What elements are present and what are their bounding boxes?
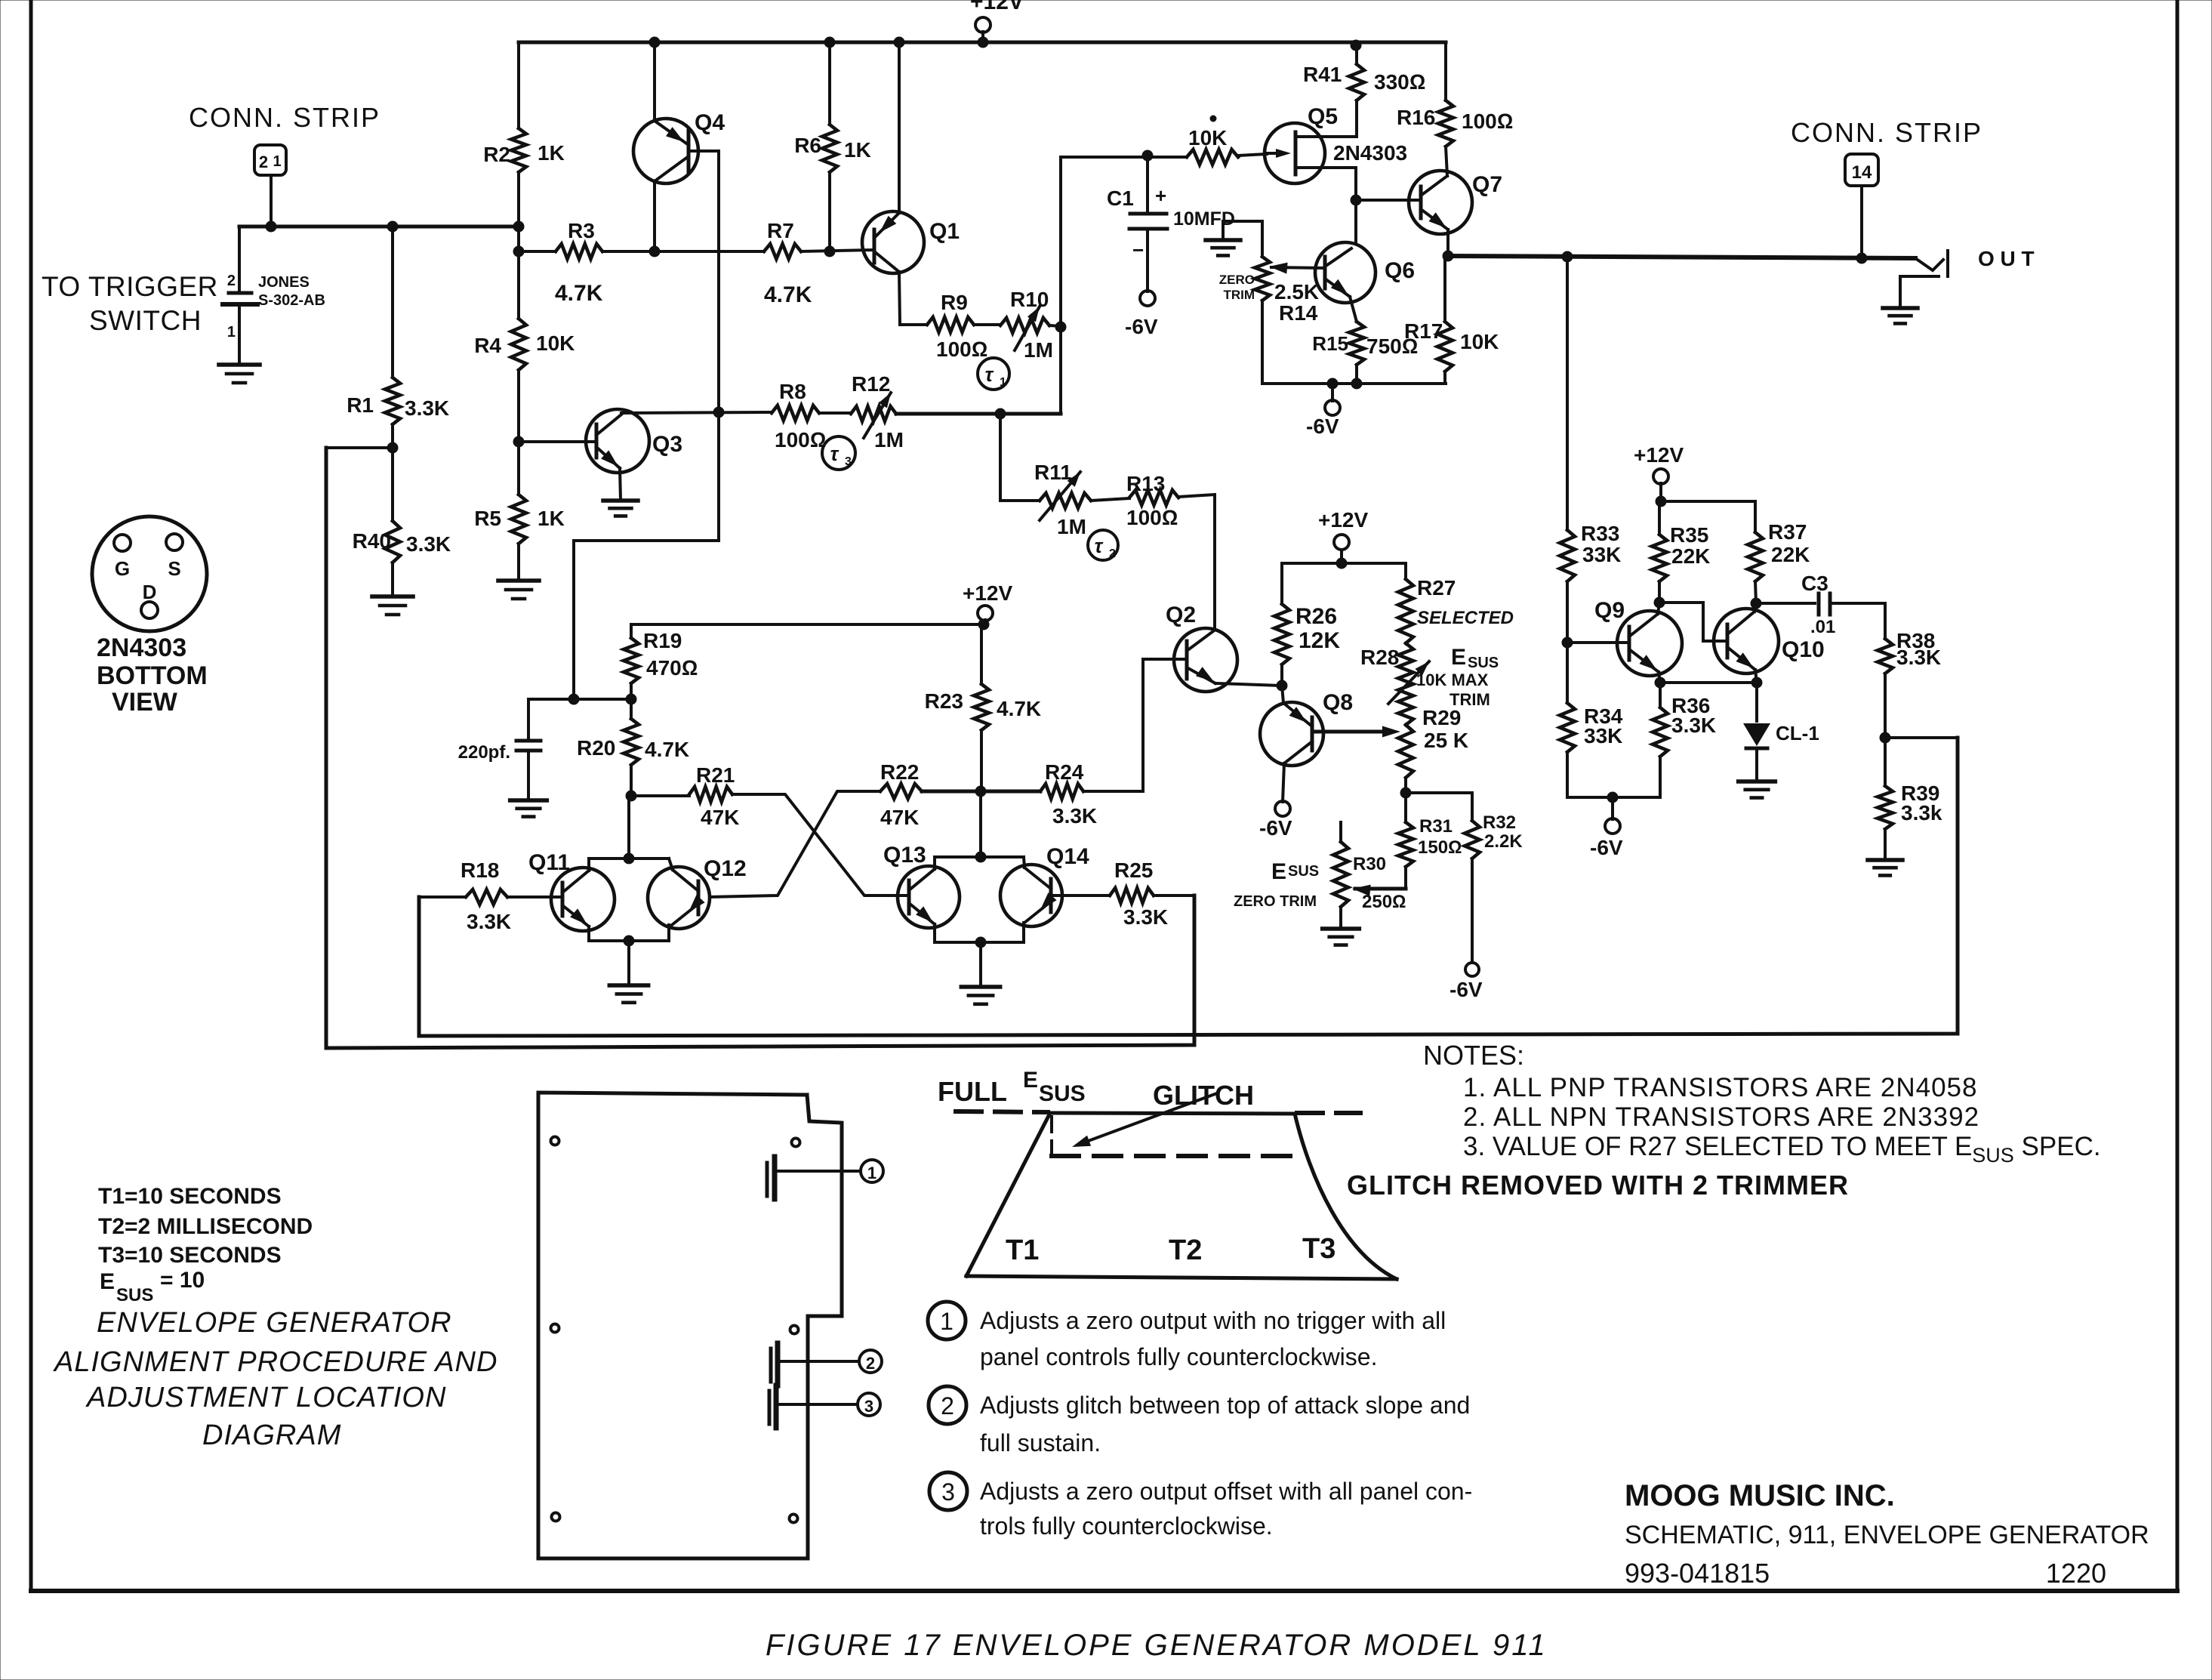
connector terminal 21 bbox=[254, 145, 286, 175]
svg-text:R13: R13 bbox=[1126, 472, 1165, 495]
resistor R26 bbox=[1280, 563, 1283, 604]
transistor Q13 bbox=[898, 866, 960, 928]
resistor R19 470 bbox=[630, 624, 633, 638]
svg-text:VIEW: VIEW bbox=[112, 688, 178, 717]
svg-text:2.5K: 2.5K bbox=[1274, 280, 1319, 304]
svg-text:E: E bbox=[1023, 1068, 1038, 1093]
svg-text:-6V: -6V bbox=[1306, 415, 1339, 438]
svg-text:10MFD: 10MFD bbox=[1173, 208, 1235, 230]
svg-text:G: G bbox=[115, 557, 130, 580]
ground below R30 bbox=[1323, 926, 1360, 931]
resistor R25 3.3K bbox=[1051, 894, 1110, 897]
adjustment note 3 bbox=[929, 1472, 967, 1510]
trimmer pot 1 on PCB bbox=[766, 1163, 769, 1196]
wire Q11/Q12 collector bar bbox=[589, 857, 669, 860]
transistor Q14 bbox=[1000, 865, 1062, 926]
node -6V tap bbox=[1327, 378, 1338, 389]
svg-text:1K: 1K bbox=[844, 138, 871, 162]
page border bottom bbox=[31, 1589, 2177, 1593]
svg-text:T1=10 SECONDS: T1=10 SECONDS bbox=[98, 1184, 282, 1209]
wire Q8 emitter to -6V bbox=[1283, 763, 1284, 802]
svg-text:Q9: Q9 bbox=[1594, 598, 1625, 623]
ground below 220pf bbox=[510, 798, 547, 803]
svg-text:R24: R24 bbox=[1045, 760, 1084, 784]
svg-text:−: − bbox=[1132, 239, 1144, 261]
svg-text:1M: 1M bbox=[874, 428, 904, 452]
transistor Q5 2N4303 FET bbox=[1265, 123, 1325, 183]
ground at R14 top bbox=[1206, 238, 1240, 242]
wire Q11 base bbox=[507, 895, 562, 899]
svg-text:Q10: Q10 bbox=[1782, 637, 1825, 662]
wire trigger bus bbox=[239, 225, 519, 229]
label T2 timing circle bbox=[1088, 530, 1118, 560]
svg-text:R17: R17 bbox=[1404, 319, 1443, 343]
svg-text:3.3K: 3.3K bbox=[467, 910, 511, 933]
resistor R6 bbox=[824, 37, 835, 48]
node R19/R20/220pf junction bbox=[630, 683, 633, 719]
svg-text:R32: R32 bbox=[1483, 812, 1516, 833]
wire R22 to Q12 base (cross) bbox=[710, 791, 880, 897]
node R38/R39 junction bbox=[1884, 674, 1887, 738]
svg-text:R40: R40 bbox=[353, 529, 391, 553]
svg-text:ALIGNMENT PROCEDURE AND: ALIGNMENT PROCEDURE AND bbox=[53, 1346, 498, 1378]
wire +12V bar (Q8 stage) bbox=[1282, 562, 1406, 565]
svg-text:R15: R15 bbox=[1312, 332, 1348, 355]
svg-text:Q1: Q1 bbox=[929, 219, 960, 244]
svg-text:T2: T2 bbox=[1169, 1235, 1202, 1266]
svg-text:SWITCH: SWITCH bbox=[89, 305, 202, 336]
svg-text:+: + bbox=[1155, 184, 1166, 207]
resistor R39 3.3K bbox=[1884, 738, 1887, 786]
dashed full-Esus level line bbox=[956, 1111, 1048, 1112]
svg-text:14: 14 bbox=[1852, 162, 1872, 183]
leader to circle 1 bbox=[778, 1170, 860, 1173]
glitch arrow bbox=[1078, 1093, 1217, 1145]
wire Q9 base bbox=[1567, 641, 1629, 644]
wire Q4 base to Q3 collector node bbox=[689, 150, 719, 153]
wire T-node to 10K bbox=[1061, 156, 1187, 159]
svg-text:SUS: SUS bbox=[116, 1285, 153, 1305]
svg-text:R5: R5 bbox=[474, 507, 501, 530]
resistor R32 bbox=[1471, 793, 1474, 821]
wire R3 to R7 bbox=[602, 250, 764, 253]
svg-text:1: 1 bbox=[227, 324, 236, 341]
wire R24 to Q2 base bbox=[1083, 659, 1143, 791]
svg-text:R26: R26 bbox=[1295, 604, 1337, 629]
node conn14 tap bbox=[1856, 253, 1867, 264]
svg-text:3.3K: 3.3K bbox=[1671, 714, 1716, 737]
wire branch down to R11 bbox=[999, 414, 1002, 501]
wire +12V bar flip-flop bbox=[631, 623, 984, 626]
svg-text:R20: R20 bbox=[577, 736, 615, 760]
transistor Q2 bbox=[1174, 628, 1237, 692]
transistor Q1 bbox=[862, 211, 924, 273]
svg-text:2N4303: 2N4303 bbox=[1333, 141, 1407, 165]
svg-text:993-041815: 993-041815 bbox=[1625, 1558, 1770, 1589]
svg-text:R33: R33 bbox=[1581, 522, 1619, 545]
svg-text:FIGURE 17 ENVELOPE GENERATOR: FIGURE 17 ENVELOPE GENERATOR MODEL 911 bbox=[766, 1629, 1548, 1662]
svg-text:3.3K: 3.3K bbox=[1123, 905, 1168, 929]
svg-text:D: D bbox=[143, 581, 157, 603]
capacitor 220pf bbox=[527, 699, 530, 739]
svg-text:+12V: +12V bbox=[963, 581, 1012, 605]
svg-text:BOTTOM: BOTTOM bbox=[97, 661, 208, 690]
svg-text:4.7K: 4.7K bbox=[645, 738, 689, 761]
svg-text:3: 3 bbox=[864, 1397, 873, 1416]
wire Q10 base bbox=[1703, 640, 1727, 643]
svg-text:1: 1 bbox=[940, 1308, 954, 1335]
wire Q2 base from R24 bbox=[1143, 658, 1187, 661]
svg-text:1M: 1M bbox=[1024, 338, 1053, 362]
resistor R23 4.7K bbox=[980, 624, 983, 684]
svg-text:τ: τ bbox=[985, 363, 994, 386]
svg-text:ZERO: ZERO bbox=[1219, 273, 1255, 287]
resistor R3 bbox=[519, 250, 556, 253]
svg-text:100Ω: 100Ω bbox=[936, 338, 987, 361]
resistor R15 bbox=[1349, 322, 1364, 365]
svg-text:100Ω: 100Ω bbox=[775, 428, 826, 452]
PCB board outline bbox=[538, 1093, 842, 1558]
wire R1 top to trigger bus bbox=[387, 221, 398, 232]
svg-text:2: 2 bbox=[259, 153, 268, 171]
trimmer R14 2.5K zero trim bbox=[1255, 257, 1270, 301]
label T3 timing circle bbox=[822, 436, 855, 470]
wire Q9/Q10 emitter bus bbox=[1660, 681, 1757, 684]
resistor R5 bbox=[517, 442, 520, 495]
wire R29 to R31/R32 node bbox=[1404, 778, 1407, 793]
wire OUT feedback down to Q9 base bbox=[1566, 257, 1569, 530]
svg-text:SUS: SUS bbox=[1039, 1081, 1086, 1106]
wire R33 to Q9 base node bbox=[1566, 581, 1569, 643]
svg-text:R9: R9 bbox=[941, 291, 968, 314]
svg-text:250Ω: 250Ω bbox=[1362, 892, 1406, 912]
svg-text:trols fully counterclockwise.: trols fully counterclockwise. bbox=[980, 1512, 1273, 1540]
ground below R40 bbox=[372, 594, 413, 599]
resistor R21 47K bbox=[631, 794, 689, 797]
ground below CL-1 bbox=[1739, 779, 1776, 784]
node R11 branch bbox=[995, 408, 1006, 419]
svg-text:33K: 33K bbox=[1582, 543, 1621, 566]
svg-text:E: E bbox=[100, 1269, 115, 1294]
svg-text:full sustain.: full sustain. bbox=[980, 1429, 1101, 1457]
wire Q11/Q12 emitter bar bbox=[589, 939, 669, 942]
svg-text:Q13: Q13 bbox=[883, 843, 926, 868]
wire Q3 collector to R8 bbox=[621, 412, 772, 413]
wire upper feedback loop (R18 to R38/R39 node) bbox=[419, 738, 1958, 1036]
svg-text:Q14: Q14 bbox=[1046, 844, 1089, 869]
svg-text:12K: 12K bbox=[1299, 628, 1340, 653]
svg-text:τ: τ bbox=[830, 442, 840, 465]
trimmer R30 Esus zero trim 250 bbox=[1339, 822, 1342, 842]
svg-text:Q4: Q4 bbox=[695, 110, 725, 135]
svg-text:CONN. STRIP: CONN. STRIP bbox=[1791, 117, 1982, 148]
resistor R22 47K bbox=[880, 784, 922, 799]
wire Q7 collector to R16 bbox=[1446, 146, 1447, 176]
svg-text:1K: 1K bbox=[538, 141, 565, 165]
wire R7 to Q1 base bbox=[801, 250, 874, 251]
resistor R38 3.3K bbox=[1878, 639, 1893, 674]
svg-text:22K: 22K bbox=[1771, 543, 1810, 566]
svg-text:-6V: -6V bbox=[1450, 978, 1483, 1001]
svg-text:R7: R7 bbox=[767, 219, 794, 242]
output jack bbox=[1915, 258, 1943, 270]
wire R31 to R30 wiper bbox=[1404, 867, 1407, 889]
wire Q5 source to Q7 base node bbox=[1354, 168, 1357, 200]
power terminal -6V below Q8 bbox=[1275, 801, 1290, 816]
svg-text:C1: C1 bbox=[1107, 186, 1134, 210]
connector terminal 14 bbox=[1845, 154, 1878, 186]
svg-text:R37: R37 bbox=[1768, 520, 1807, 544]
adjustment note 2 bbox=[929, 1386, 966, 1424]
svg-text:R4: R4 bbox=[474, 334, 501, 357]
node feedback tap bbox=[1562, 251, 1573, 262]
svg-text:SELECTED: SELECTED bbox=[1417, 608, 1514, 628]
capacitor C1 10MFD bbox=[1146, 156, 1149, 212]
svg-text:3: 3 bbox=[845, 455, 852, 468]
svg-text:1: 1 bbox=[1000, 376, 1006, 389]
svg-text:R19: R19 bbox=[643, 629, 682, 652]
svg-text:T3=10 SECONDS: T3=10 SECONDS bbox=[98, 1243, 282, 1268]
wire R10 to node bbox=[1049, 325, 1061, 326]
transistor Q12 bbox=[648, 867, 710, 929]
svg-text:= 10: = 10 bbox=[160, 1268, 205, 1293]
power terminal -6V below Q9 stage bbox=[1605, 818, 1620, 834]
svg-text:τ: τ bbox=[1095, 535, 1104, 557]
wire rail to R2 bbox=[517, 42, 520, 128]
svg-text:2.2K: 2.2K bbox=[1484, 831, 1523, 852]
wire OUT bus bbox=[1448, 256, 1915, 258]
resistor R17 bbox=[1443, 256, 1446, 322]
resistor R13 bbox=[1091, 498, 1129, 501]
svg-text:3.3K: 3.3K bbox=[1896, 646, 1941, 669]
wire R37 to Q10 collector / C3 bbox=[1755, 581, 1756, 603]
wire R2 to trigger node bbox=[517, 172, 520, 251]
PCB hole mid-left bbox=[551, 1324, 559, 1333]
svg-text:E: E bbox=[1451, 645, 1466, 670]
resistor R18 3.3K bbox=[419, 895, 466, 899]
transistor Q6 bbox=[1315, 242, 1376, 303]
svg-text:2: 2 bbox=[866, 1354, 875, 1373]
svg-text:R22: R22 bbox=[880, 760, 919, 784]
svg-text:33K: 33K bbox=[1584, 724, 1622, 748]
svg-text:SUS: SUS bbox=[1468, 655, 1499, 671]
resistor R4 bbox=[511, 319, 526, 370]
node Q4 emitter junction bbox=[649, 246, 660, 257]
svg-text:ENVELOPE GENERATOR: ENVELOPE GENERATOR bbox=[97, 1307, 452, 1339]
wire Q1 collector to R9 bbox=[899, 272, 900, 325]
node R1/R40 junction bbox=[391, 424, 394, 448]
svg-text:CONN. STRIP: CONN. STRIP bbox=[189, 102, 380, 133]
svg-text:Q2: Q2 bbox=[1166, 603, 1196, 627]
svg-text:3.3K: 3.3K bbox=[406, 532, 451, 556]
node R4/R5/Q3 base junction bbox=[517, 370, 520, 442]
wire Q8 collector bbox=[1282, 686, 1283, 703]
PCB hole top-right bbox=[792, 1139, 800, 1147]
svg-text:CL-1: CL-1 bbox=[1776, 722, 1819, 744]
wire R21 to Q13 base (cross) bbox=[732, 794, 909, 895]
svg-text:R31: R31 bbox=[1419, 816, 1453, 837]
svg-text:R29: R29 bbox=[1422, 706, 1461, 729]
svg-text:3.3K: 3.3K bbox=[1052, 804, 1097, 828]
svg-text:SCHEMATIC, 911, ENVELOPE GENER: SCHEMATIC, 911, ENVELOPE GENERATOR bbox=[1625, 1521, 2149, 1549]
wire Q3 base bbox=[519, 440, 596, 443]
resistor R2 bbox=[511, 128, 526, 172]
svg-text:R41: R41 bbox=[1303, 63, 1342, 86]
wire Q9 collector bbox=[1658, 603, 1659, 614]
svg-text:R25: R25 bbox=[1114, 858, 1153, 882]
power terminal +12V (Q8 stage) bbox=[1334, 535, 1349, 550]
svg-text:4.7K: 4.7K bbox=[997, 697, 1041, 720]
wire Q13/Q14 emitter bar bbox=[935, 941, 1024, 944]
wire R14 to -6V rail bbox=[1261, 301, 1264, 384]
wire R22/R24 bus bbox=[922, 790, 1040, 794]
wire R38/R39 node to loop bbox=[1885, 736, 1958, 739]
transistor Q9 bbox=[1617, 611, 1682, 676]
transistor Q11 bbox=[551, 868, 615, 931]
wire R4 top bbox=[517, 251, 520, 319]
ground below Q3 bbox=[603, 498, 638, 503]
svg-text:TRIM: TRIM bbox=[1223, 288, 1255, 302]
svg-text:Adjusts a zero output offset w: Adjusts a zero output offset with all pa… bbox=[980, 1478, 1472, 1505]
svg-text:R28: R28 bbox=[1360, 646, 1399, 669]
svg-text:R21: R21 bbox=[696, 763, 735, 787]
trimmer pot 3 on PCB bbox=[768, 1391, 772, 1424]
svg-text:Adjusts glitch between top of: Adjusts glitch between top of attack slo… bbox=[980, 1392, 1470, 1419]
svg-text:10K MAX: 10K MAX bbox=[1416, 670, 1489, 689]
transistor Q4 bbox=[633, 119, 698, 183]
svg-text:10K: 10K bbox=[1460, 330, 1499, 353]
trimmer R29 25K bbox=[1398, 725, 1413, 778]
potentiometer R11 bbox=[1040, 493, 1091, 508]
svg-text:2N4303: 2N4303 bbox=[97, 633, 186, 662]
wire +12V bar Q9/Q10 bbox=[1661, 500, 1755, 503]
svg-text:1K: 1K bbox=[538, 507, 565, 530]
wire R30 to ground bbox=[1339, 907, 1342, 929]
svg-text:GLITCH: GLITCH bbox=[1153, 1080, 1254, 1111]
svg-text:100Ω: 100Ω bbox=[1462, 109, 1513, 133]
svg-text:2: 2 bbox=[227, 273, 236, 289]
wire lower feedback loop (R1 node to R25) bbox=[326, 448, 1194, 1048]
svg-text:4.7K: 4.7K bbox=[555, 281, 603, 306]
svg-text:100Ω: 100Ω bbox=[1126, 506, 1178, 529]
svg-text:2: 2 bbox=[1109, 547, 1116, 560]
svg-text:1M: 1M bbox=[1057, 515, 1086, 538]
svg-text:1: 1 bbox=[273, 153, 281, 170]
wire R31/R32 top bar bbox=[1406, 791, 1472, 794]
svg-text:3: 3 bbox=[941, 1478, 955, 1506]
resistor R33 33K bbox=[1560, 530, 1575, 581]
svg-text:NOTES:: NOTES: bbox=[1423, 1040, 1524, 1071]
svg-text:T2=2 MILLISECOND: T2=2 MILLISECOND bbox=[98, 1214, 313, 1239]
ground below Q11/Q12 bbox=[609, 983, 648, 988]
trimmer R28 Esus 10K max trim bbox=[1398, 643, 1413, 725]
ground below Q13/Q14 bbox=[961, 985, 1000, 989]
node junction conn21/trigger bbox=[266, 221, 276, 232]
svg-text:FULL: FULL bbox=[938, 1076, 1007, 1107]
resistor R1 bbox=[385, 378, 400, 424]
svg-text:R23: R23 bbox=[925, 689, 963, 713]
svg-text:+12V: +12V bbox=[1318, 508, 1368, 532]
diode CL-1 bbox=[1755, 683, 1758, 721]
svg-text:Q6: Q6 bbox=[1385, 258, 1415, 283]
svg-text:1. ALL PNP TRANSISTORS ARE 2N: 1. ALL PNP TRANSISTORS ARE 2N4058 bbox=[1463, 1073, 1977, 1102]
envelope waveform bbox=[966, 1113, 1295, 1276]
resistor R37 22K bbox=[1748, 532, 1763, 581]
svg-text:R1: R1 bbox=[347, 393, 374, 417]
wire Q4 collector to rail bbox=[649, 37, 660, 48]
PCB hole bottom-right bbox=[790, 1515, 798, 1523]
svg-text:R27: R27 bbox=[1417, 576, 1456, 600]
wire conn21 to trigger line bbox=[270, 175, 273, 227]
wire R12 to T-node bbox=[896, 412, 1061, 416]
resistor R20 4.7K bbox=[624, 719, 639, 765]
wire R32 to -6V bbox=[1471, 858, 1474, 962]
potentiometer R10 bbox=[974, 323, 1000, 326]
ground at jack bbox=[1883, 306, 1918, 310]
wire 10K to Q5 gate bbox=[1238, 154, 1267, 156]
svg-text:220pf.: 220pf. bbox=[458, 742, 510, 763]
potentiometer R12 bbox=[819, 412, 851, 415]
wire Q6 base to R14 wiper bbox=[1271, 267, 1325, 268]
svg-text:R14: R14 bbox=[1279, 301, 1318, 325]
svg-text:R30: R30 bbox=[1353, 854, 1386, 874]
svg-text:R6: R6 bbox=[794, 134, 821, 157]
svg-text:25 K: 25 K bbox=[1424, 729, 1468, 752]
svg-text:47K: 47K bbox=[880, 806, 919, 829]
wire R40 to ground bbox=[391, 563, 394, 596]
power terminal -6V below R32 bbox=[1465, 963, 1479, 976]
ground below switch bbox=[219, 362, 260, 367]
svg-text:TO TRIGGER: TO TRIGGER bbox=[42, 271, 218, 302]
svg-text:O U T: O U T bbox=[1978, 247, 2035, 270]
svg-text:ZERO TRIM: ZERO TRIM bbox=[1234, 893, 1317, 910]
wire Q10 collector bbox=[1755, 603, 1756, 612]
svg-text:2: 2 bbox=[941, 1392, 954, 1420]
transistor Q10 bbox=[1714, 609, 1779, 674]
wire Q1 emitter to rail bbox=[894, 37, 904, 48]
capacitor C3 .01 bbox=[1756, 602, 1815, 605]
svg-text:+12V: +12V bbox=[970, 0, 1024, 14]
svg-text:10K: 10K bbox=[536, 331, 575, 355]
leader to circle 2 bbox=[781, 1360, 859, 1363]
svg-text:Q3: Q3 bbox=[652, 432, 682, 457]
page border left bbox=[29, 0, 33, 1591]
svg-text:R18: R18 bbox=[461, 858, 499, 882]
svg-text:10K: 10K bbox=[1188, 126, 1227, 150]
PCB hole mid-right bbox=[790, 1326, 799, 1334]
svg-text:Q5: Q5 bbox=[1308, 104, 1338, 129]
svg-text:Q8: Q8 bbox=[1323, 690, 1353, 715]
page border right bbox=[2176, 0, 2180, 1591]
resistor R35 22K bbox=[1652, 535, 1667, 581]
wire Q2 emitter to Q8 node bbox=[1215, 683, 1282, 686]
svg-text:R11: R11 bbox=[1034, 461, 1072, 484]
node R2/R3 junction bbox=[513, 246, 524, 257]
svg-text:Q11: Q11 bbox=[528, 850, 570, 875]
resistor R34 33K bbox=[1566, 643, 1569, 703]
wire R5 to ground bbox=[517, 544, 520, 581]
svg-text:ADJUSTMENT LOCATION: ADJUSTMENT LOCATION bbox=[85, 1382, 446, 1413]
svg-text:R35: R35 bbox=[1670, 523, 1708, 547]
resistor R40 bbox=[391, 448, 394, 521]
2N4303 bottom view diagram bbox=[92, 516, 207, 631]
transistor Q8 bbox=[1260, 702, 1323, 766]
resistor R16 bbox=[1444, 42, 1447, 100]
svg-text:3.3k: 3.3k bbox=[1901, 801, 1942, 825]
node Q4 base/Q3 collector bbox=[713, 407, 724, 418]
wire Q6 emitter to R15 bbox=[1350, 297, 1357, 322]
wire -6V rail below Q9 bbox=[1567, 796, 1660, 799]
